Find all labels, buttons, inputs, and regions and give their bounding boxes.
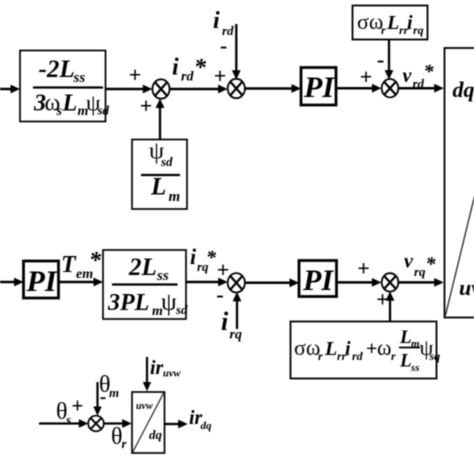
svg-text:L: L (399, 327, 412, 348)
svg-text:r: r (381, 23, 386, 37)
block D: 2Lss/(3PLmPsd) (103, 250, 188, 319)
svg-text:-: - (220, 33, 227, 58)
svg-text:*: * (89, 248, 102, 274)
label i_rd at top (213, 8, 234, 38)
svg-text:σω: σω (357, 9, 383, 34)
label theta_s (56, 399, 71, 427)
svg-text:+: + (214, 63, 227, 88)
svg-text:v: v (403, 65, 413, 87)
wire: G1 to S1 (106, 85, 153, 94)
svg-text:i: i (213, 8, 220, 34)
wire: S5 to dq block with label vrq* (399, 278, 444, 287)
wire: S4 to PI3 (245, 278, 299, 287)
wire: PI1 to S3 (336, 84, 381, 93)
svg-text:sd: sd (97, 103, 110, 118)
wire: input arrow row1 (0, 85, 20, 94)
wire: PI3 to S5 (337, 278, 382, 287)
svg-text:i: i (172, 55, 179, 81)
svg-text:+: + (129, 62, 142, 87)
svg-text:+: + (366, 338, 377, 360)
block E: uvw/dq transform (132, 392, 165, 453)
svg-text:dq: dq (201, 420, 213, 432)
svg-text:dq: dq (453, 77, 474, 102)
wire: block E out with label ir_dq (165, 420, 188, 429)
svg-text:dq: dq (149, 427, 163, 442)
svg-text:rd: rd (352, 349, 364, 363)
svg-text:T: T (61, 252, 77, 278)
wire: ir_uvw down into block E (143, 357, 151, 391)
label theta_r (111, 424, 128, 451)
wire: F up to S1 (156, 99, 165, 140)
svg-text:L: L (324, 338, 337, 360)
svg-text:+: + (360, 64, 373, 89)
summing junction S4 (228, 273, 245, 292)
svg-text:ss: ss (410, 362, 420, 374)
svg-text:-: - (216, 282, 223, 307)
svg-text:-: - (100, 386, 107, 408)
svg-text:PI: PI (303, 71, 335, 104)
svg-text:sq: sq (429, 349, 441, 363)
svg-text:+: + (357, 256, 370, 281)
svg-text:uvw: uvw (459, 275, 474, 300)
summing junction S1 (152, 79, 169, 98)
svg-text:-2L: -2L (39, 56, 75, 83)
label i_rd* (172, 55, 207, 85)
svg-text:r: r (391, 349, 396, 363)
svg-text:*: * (206, 247, 217, 269)
label ir_dq (189, 407, 212, 432)
wire: irq up into S4 (233, 292, 242, 329)
wire: input arrow row2 (0, 278, 24, 287)
svg-text:+: + (140, 93, 153, 118)
svg-text:*: * (194, 55, 207, 81)
svg-text:s: s (65, 412, 71, 427)
wire: ird down into S2 (232, 24, 241, 80)
svg-text:m: m (109, 385, 119, 400)
svg-text:2L: 2L (128, 254, 157, 281)
label theta_m (99, 372, 119, 400)
wire: B2 up to S5 (386, 291, 395, 321)
svg-text:rq: rq (230, 328, 242, 343)
label i_rq* (190, 244, 217, 274)
svg-text:σω: σω (294, 335, 320, 360)
wire: S2 to PI1 (245, 84, 301, 93)
summing junction S6 (88, 416, 104, 432)
wire: S6 to uvw/dq block with label theta_r (104, 419, 132, 428)
summing junction S2 (228, 79, 245, 98)
svg-text:v: v (404, 251, 414, 273)
svg-text:3PL: 3PL (107, 290, 149, 316)
label v_rd* (403, 61, 435, 91)
svg-text:ω: ω (377, 335, 391, 360)
svg-text:PI: PI (26, 265, 58, 298)
svg-text:r: r (318, 349, 323, 363)
wire: D to S4 with label irq* (186, 278, 228, 287)
summing junction S3 (382, 79, 399, 97)
svg-text:ψ: ψ (161, 289, 177, 316)
svg-text:L: L (62, 91, 78, 117)
block PI3 (299, 261, 337, 298)
block F: psd/Lm (132, 139, 187, 210)
label T_em* (61, 248, 102, 282)
block B1: sigma wr Lrr irq (353, 6, 428, 40)
svg-text:L: L (399, 351, 412, 372)
block B2: sigma wr Lrr ird + wr Lm/Lss psq (291, 322, 441, 379)
svg-text:rd: rd (181, 70, 194, 85)
svg-text:m: m (169, 189, 181, 205)
svg-text:*: * (426, 254, 437, 276)
label v_rq* (404, 251, 437, 280)
svg-text:PI: PI (302, 264, 334, 297)
svg-text:uvw: uvw (136, 401, 153, 412)
wire: B1 down to S3 (385, 40, 394, 80)
block PI1 (301, 68, 336, 106)
svg-text:rq: rq (413, 23, 424, 37)
svg-text:uvw: uvw (163, 369, 182, 380)
svg-text:s: s (56, 104, 63, 119)
block PI2 (24, 261, 59, 298)
svg-text:-: - (377, 47, 384, 72)
svg-text:i: i (345, 338, 351, 360)
svg-text:i: i (190, 244, 197, 269)
svg-text:*: * (424, 61, 435, 83)
svg-text:+: + (72, 394, 84, 418)
wire: PI2 to block D with label Tem* (59, 278, 104, 287)
block G1: -2Lss/(3wsLmPsd) (20, 51, 110, 122)
summing junction S5 (382, 273, 399, 291)
svg-text:ss: ss (73, 70, 86, 86)
wire: S3 to dq block with label vrd* (399, 84, 444, 93)
label ir_uvw (150, 357, 182, 380)
wire: input arrow theta_s (39, 419, 88, 428)
svg-text:rq: rq (414, 264, 426, 279)
label i_rq below (221, 307, 242, 343)
svg-text:sd: sd (160, 154, 173, 169)
svg-text:L: L (386, 12, 399, 34)
svg-text:+: + (217, 257, 230, 282)
wire: S1 to S2 with label ird* (170, 85, 228, 94)
svg-text:ss: ss (156, 268, 169, 284)
wire: theta_m down into S6 (93, 382, 101, 416)
svg-text:sd: sd (175, 302, 188, 317)
svg-text:L: L (150, 174, 166, 201)
svg-text:i: i (221, 307, 229, 336)
block C: dq/uvw transform (clipped at right) (445, 48, 474, 318)
svg-text:ir: ir (150, 357, 164, 379)
